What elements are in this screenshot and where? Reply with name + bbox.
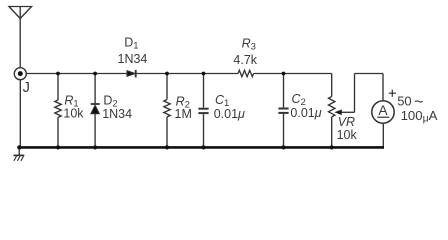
wire J to ground — [19, 80, 21, 146]
svg-text:10k: 10k — [63, 107, 84, 121]
antenna — [9, 7, 32, 68]
node D2 bottom — [93, 145, 97, 149]
wire top line left of D1 — [27, 73, 127, 75]
node C2 top — [282, 72, 286, 76]
svg-text:J: J — [23, 80, 30, 96]
wire VR top — [331, 74, 333, 97]
node R2 top — [165, 72, 169, 76]
node VR bottom — [330, 145, 334, 149]
resistor R3 — [238, 70, 254, 76]
bottom bus wire — [19, 146, 384, 149]
potentiometer VR — [329, 97, 335, 147]
svg-text:10k: 10k — [337, 128, 358, 142]
VR wiper arrow — [335, 74, 383, 115]
wire top line R3 to VR — [254, 73, 332, 75]
svg-text:1N34: 1N34 — [118, 52, 148, 66]
svg-text:D1: D1 — [124, 35, 138, 51]
svg-text:0.01μ: 0.01μ — [214, 107, 245, 121]
node ground bus left — [17, 145, 21, 149]
junction dots top line — [17, 72, 334, 150]
svg-text:100μA: 100μA — [401, 108, 438, 125]
svg-text:A: A — [378, 103, 388, 118]
svg-text:4.7k: 4.7k — [233, 53, 257, 67]
svg-text:VR: VR — [338, 115, 355, 129]
svg-text:0.01μ: 0.01μ — [290, 106, 321, 120]
resistor R2 — [164, 74, 170, 147]
diode D2 — [91, 74, 100, 147]
svg-text:1N34: 1N34 — [102, 107, 132, 121]
node C2 bottom — [281, 145, 285, 149]
plus sign — [389, 90, 396, 97]
node C1 bottom — [201, 145, 205, 149]
svg-text:R3: R3 — [242, 36, 256, 52]
wire top line D1 to R3 — [136, 73, 238, 75]
ground — [14, 149, 25, 161]
node R1 bottom — [56, 145, 60, 149]
capacitor C1 — [198, 74, 208, 147]
meter A — [372, 101, 394, 123]
resistor R1 — [55, 74, 61, 147]
node R1 top — [56, 72, 60, 76]
capacitor C2 — [278, 74, 288, 147]
node R2 bottom — [165, 145, 169, 149]
wire meter bottom — [382, 123, 384, 147]
node C1 top — [202, 72, 206, 76]
jack J — [14, 68, 26, 80]
node D2 top — [93, 72, 97, 76]
svg-text:1M: 1M — [175, 107, 192, 121]
diode D1 — [127, 70, 136, 78]
